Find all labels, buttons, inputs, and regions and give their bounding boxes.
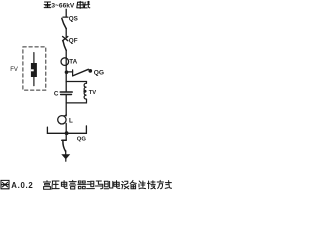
disconnector QS fixed contact tick [63, 16, 68, 18]
node label: busbar text 至 (hanzi) [44, 2, 51, 8]
caption text 压 (hanzi) [52, 181, 59, 189]
svg-text:QF: QF [69, 38, 78, 45]
caption text 方 (hanzi) [157, 180, 163, 188]
node B junction dot [65, 131, 69, 135]
surge arrester FV lead wire [33, 53, 35, 86]
caption text 配 (hanzi) [104, 181, 113, 189]
wire: QF to TA [65, 50, 67, 58]
node label: busbar text 母 (hanzi) [77, 1, 84, 8]
svg-text:A.0.2: A.0.2 [11, 181, 33, 190]
wire: split down to capacitor [65, 82, 67, 92]
voltage transformer TV coil [84, 83, 86, 99]
caption text 图 (hanzi) [1, 180, 9, 188]
caption text 备 (hanzi) [130, 180, 136, 188]
svg-text:QS: QS [69, 16, 78, 23]
arrow stub [65, 159, 67, 161]
caption text 式 (hanzi) [165, 181, 171, 189]
wire: busbar drop to QS [65, 9, 67, 17]
caption text 容 (hanzi) [69, 180, 76, 189]
caption text 设 (hanzi) [121, 181, 128, 189]
caption text 与 (hanzi) [95, 181, 102, 189]
wire: split to TV branch (top) [66, 82, 86, 84]
TV coil tap dot [83, 90, 86, 93]
circuit breaker QF contact cross [63, 37, 68, 41]
svg-text:TA: TA [69, 59, 77, 66]
caption text 电 (hanzi) [114, 181, 120, 189]
wire: node A to QG contact [68, 71, 73, 73]
wire: QS to QF [65, 28, 67, 36]
wire: TV branch bottom rejoin [66, 99, 86, 103]
switch blade tick (lower) [62, 139, 66, 141]
svg-text:QG: QG [77, 136, 87, 142]
caption text 连 (hanzi) [139, 181, 146, 189]
node label: busbar text 线 (hanzi) [84, 1, 90, 8]
svg-text:3~66kV: 3~66kV [51, 3, 75, 10]
grounding switch QG (lower) bracket [47, 126, 86, 133]
caption text 电 (hanzi) [61, 181, 67, 189]
svg-text:QG: QG [94, 69, 104, 76]
wire: through TA [65, 58, 67, 66]
capacitor C top plate [60, 91, 72, 93]
svg-text:FV: FV [10, 67, 18, 73]
disconnector QS blade [62, 18, 66, 28]
current transformer TA [61, 58, 69, 66]
circuit breaker QF blade [63, 41, 66, 51]
svg-text:TV: TV [89, 90, 97, 96]
grounding switch QG fixed contact bar [72, 70, 74, 76]
surge arrester FV body [31, 63, 37, 77]
svg-text:L: L [69, 118, 73, 125]
wire: capacitor to reactor L [65, 95, 67, 116]
caption text 器 (hanzi) [78, 181, 86, 189]
node A junction dot [65, 70, 69, 74]
reactor L loop [58, 116, 66, 124]
capacitor C bottom plate [61, 94, 72, 96]
wire: node B down to switch [65, 133, 67, 139]
surge arrester FV dashed enclosure [23, 47, 46, 90]
grounding switch QG hinge dot [88, 69, 92, 73]
switch blade (lower) [63, 141, 66, 151]
svg-text:C: C [54, 91, 59, 98]
wire: reactor to bracket node [65, 123, 67, 133]
caption text 接 (hanzi) [147, 181, 155, 189]
wire: TA down past node to C/TV split [65, 65, 67, 81]
caption text 组 (hanzi) [87, 181, 95, 188]
caption text 高 (hanzi) [43, 181, 50, 190]
wire: blade to arrow [65, 151, 67, 155]
grounding switch QG blade [73, 69, 88, 75]
arrow to ground/feeder [61, 154, 70, 159]
